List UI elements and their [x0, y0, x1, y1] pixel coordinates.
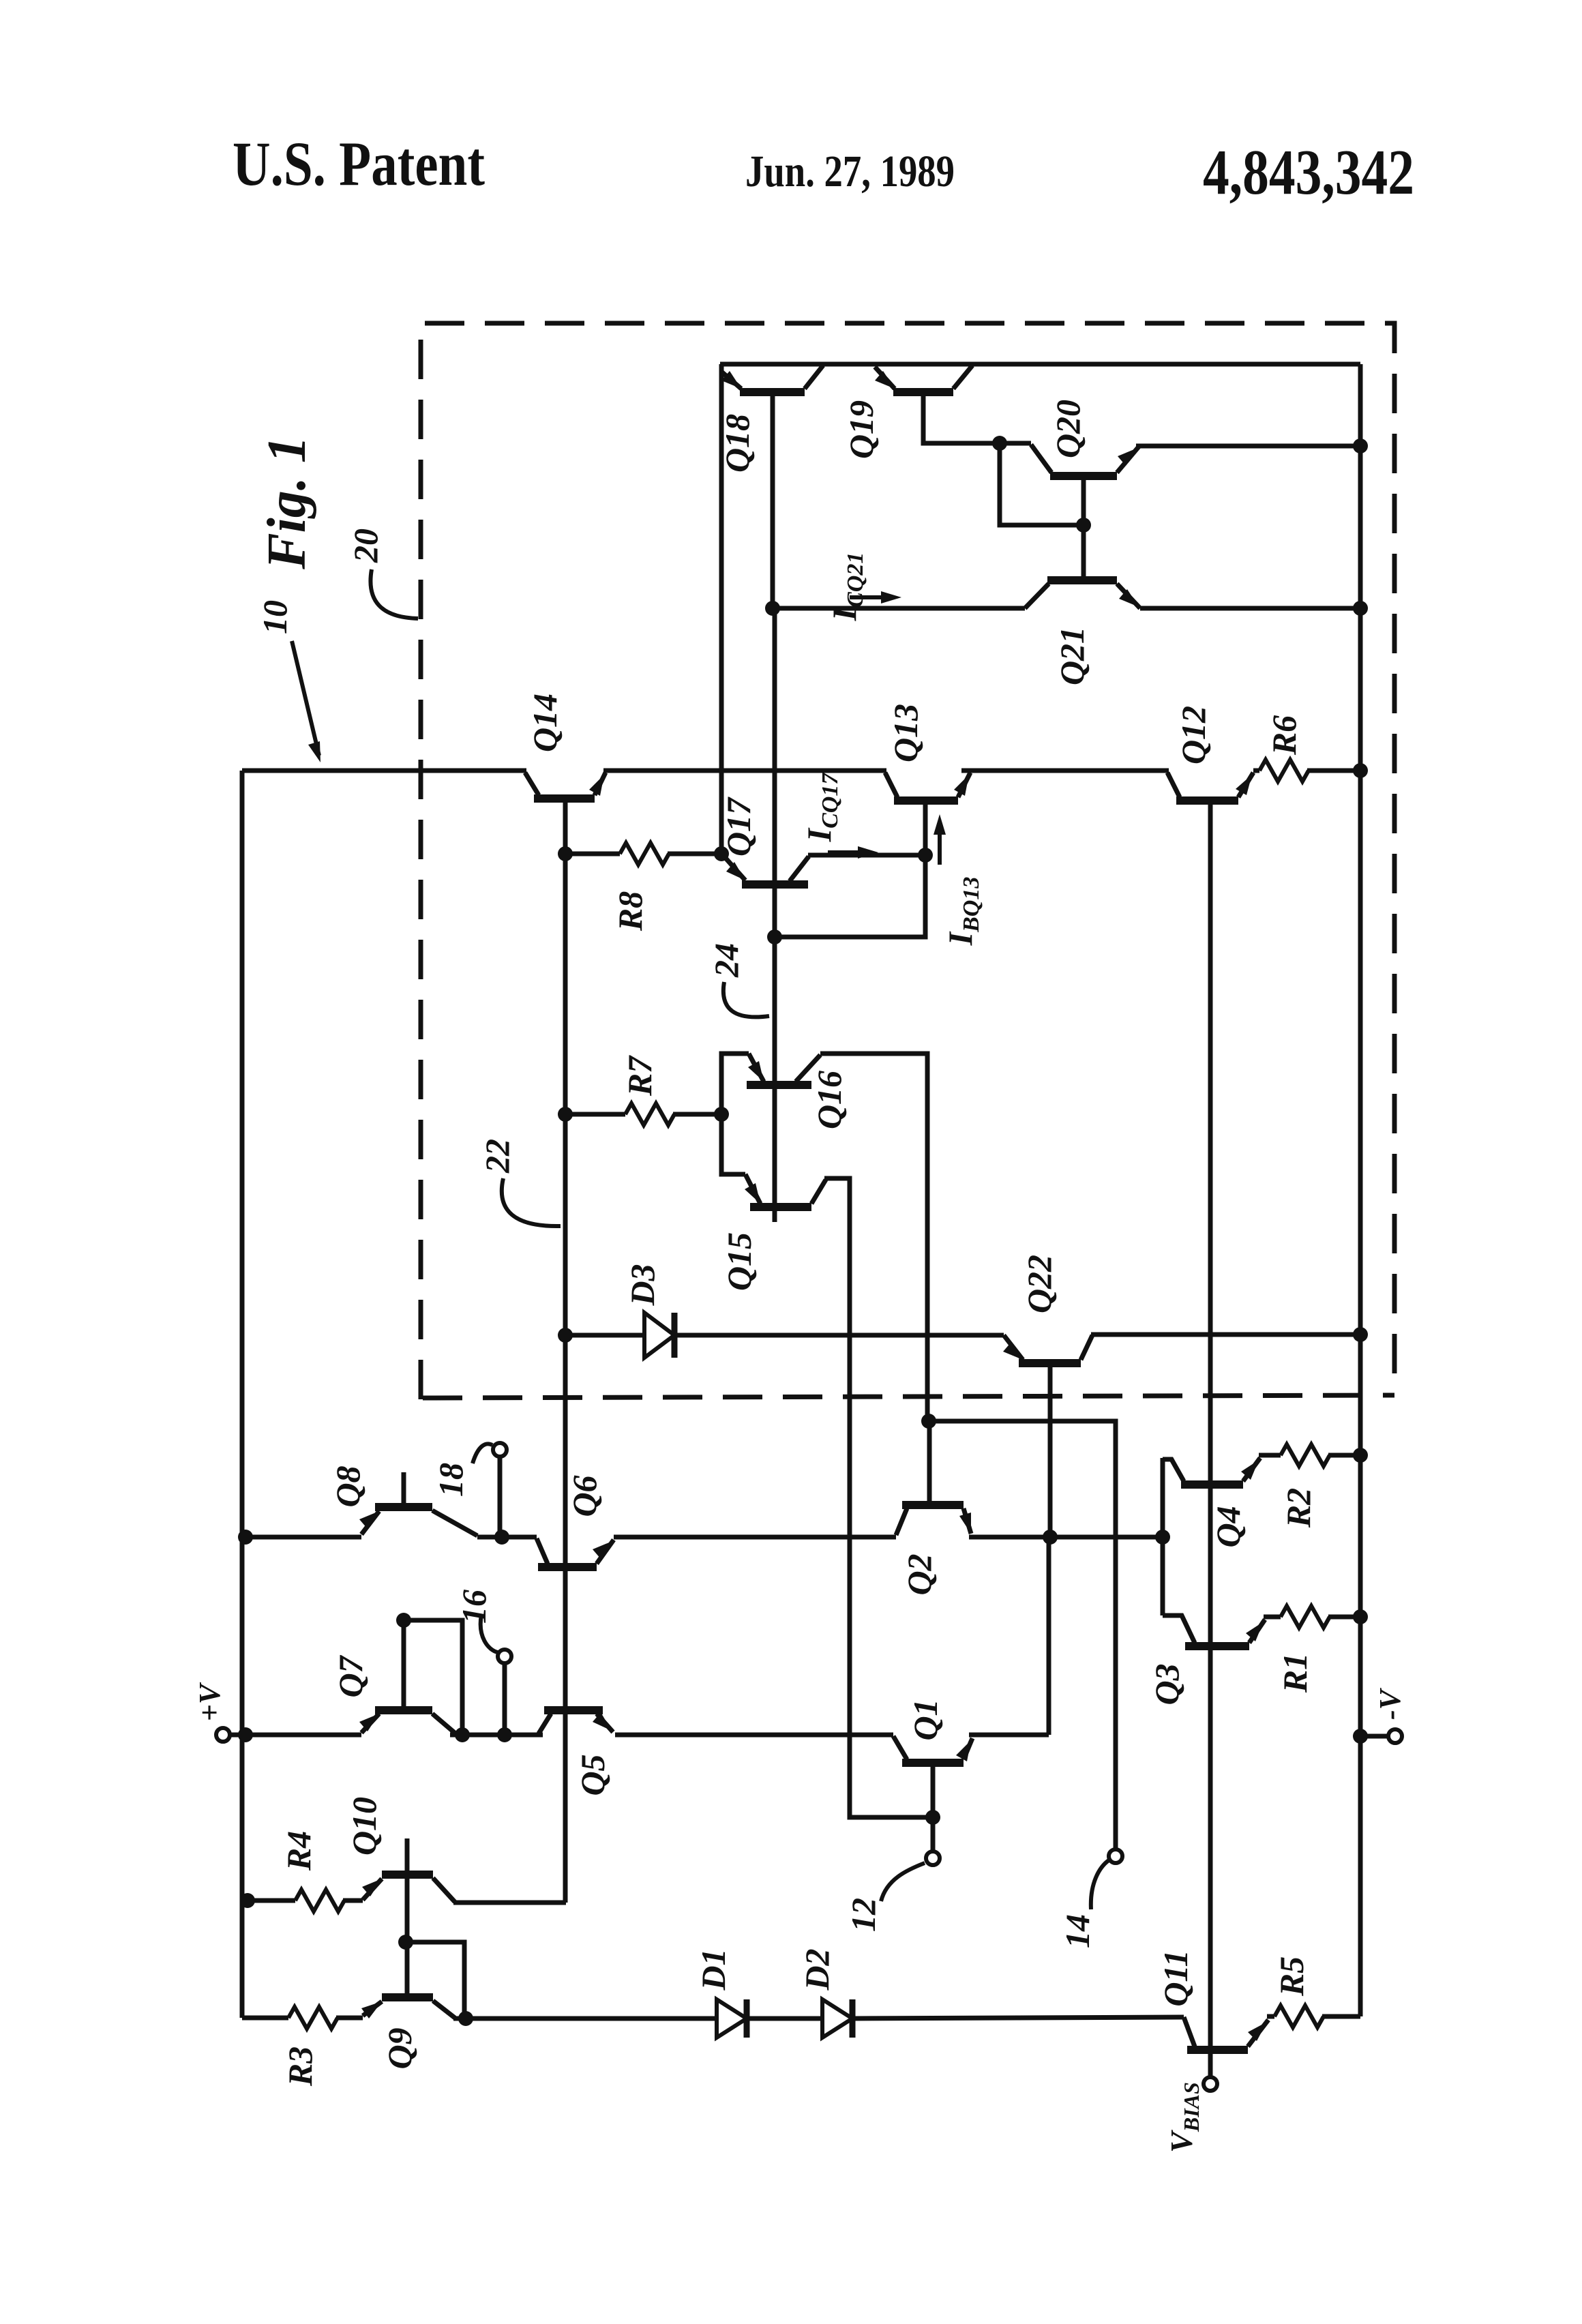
wire: Q16 collector path — [721, 1054, 749, 1114]
wire: I_BQ13 loop down to node 24 — [775, 855, 925, 937]
resistor R8 — [620, 843, 669, 865]
label D2 — [798, 1948, 836, 1991]
header text: date Jun. 27, 1989 — [745, 147, 955, 196]
svg-text:R5: R5 — [1272, 1956, 1311, 1997]
wire: D2 to Q11 — [852, 2017, 1184, 2018]
node (Q20 base link) — [1076, 518, 1091, 533]
diode D1 — [717, 1999, 747, 2038]
resistor R4 — [295, 1890, 344, 1911]
svg-text:Q16: Q16 — [810, 1071, 848, 1129]
label Q22 — [1020, 1255, 1058, 1313]
node (Q10 base jog) — [398, 1935, 413, 1950]
transistor Q16 — [747, 1054, 820, 1085]
node (input 18 tap) — [494, 1530, 509, 1545]
wire: Q5 emitter line to Q1 — [615, 1733, 893, 1738]
svg-text:Q14: Q14 — [526, 694, 564, 752]
label Q6 — [565, 1475, 603, 1517]
wire: Q21 emitter line to right rail — [1140, 606, 1360, 611]
transistor Q4 — [1163, 1458, 1260, 1485]
transistor Q3 — [1163, 1615, 1265, 1646]
wire: -V tap — [1360, 1734, 1388, 1739]
terminal: +V — [216, 1728, 230, 1742]
node (R8 / Q18 collector / Q17 collector) — [714, 846, 729, 861]
wire: +V rail top (y1130) segment 1 — [242, 769, 526, 773]
label Q8 — [329, 1465, 367, 1507]
svg-text:Q10: Q10 — [345, 1797, 383, 1856]
label Q9 — [380, 2027, 419, 2069]
wire: node 24 vertical (Q17/Q16 base line) — [773, 608, 777, 1222]
wire: +V line segment 2 — [450, 1733, 543, 1738]
terminal: input 16 — [498, 1650, 511, 1663]
terminal: input 18 — [493, 1443, 507, 1457]
wire: Q7 base stub up / link to Q8 base — [402, 1620, 406, 1710]
wire: bottom line to D1 — [453, 2016, 717, 2021]
wire: Q13 base vertical — [923, 801, 928, 855]
node (Q2 line / Q4 collector) — [1155, 1530, 1170, 1545]
wire: R7 line — [565, 1112, 721, 1117]
label R1 — [1276, 1653, 1314, 1693]
wire: R4 line — [245, 1898, 363, 1903]
label 12 with squiggle — [844, 1863, 925, 1932]
svg-text:+V: +V — [193, 1682, 226, 1721]
terminal: input 14 — [1109, 1849, 1122, 1863]
header text: U.S. Patent — [233, 129, 485, 198]
wire: Q17 emitter to Q13 base node — [808, 853, 925, 858]
wire: Q15 emitter to input 12 node — [824, 1178, 927, 1817]
transistor Q21 — [1025, 580, 1140, 608]
transistor Q6 — [537, 1538, 614, 1567]
node (Q1 base / Q15 emitter) — [925, 1810, 940, 1825]
svg-text:14: 14 — [1058, 1914, 1096, 1948]
wire: Q22 emitter to right rail — [1091, 1332, 1360, 1337]
label Q1 — [906, 1699, 944, 1740]
wire: +V rail top segment 3 — [961, 769, 1169, 773]
label R6 — [1265, 715, 1303, 756]
wire: Q22 base down — [1048, 1363, 1053, 1537]
terminal: VBIAS — [1204, 2077, 1217, 2091]
label Fig. 1 — [257, 436, 317, 570]
label Q13 — [886, 704, 925, 762]
svg-text:R3: R3 — [281, 2046, 319, 2087]
resistor R2 — [1281, 1444, 1330, 1466]
wire: Q12 base vertical down to VBIAS — [1208, 801, 1213, 2077]
label I_CQ21 with current arrow — [825, 552, 901, 622]
node (Q2 base / Q16 emitter / input 14) — [921, 1414, 936, 1429]
node (Q14 base line / R7) — [558, 1107, 573, 1122]
label Q20 — [1049, 400, 1087, 458]
node (Q14 base line / D3) — [558, 1328, 573, 1343]
wire: R3 line — [242, 2016, 363, 2021]
transistor Q19 — [875, 366, 972, 392]
wire: input 16 lead — [503, 1663, 507, 1735]
label Q7 — [331, 1654, 370, 1697]
node (R2 / right rail) — [1353, 1448, 1368, 1463]
svg-text:Q22: Q22 — [1020, 1255, 1058, 1313]
label R3 — [281, 2046, 319, 2087]
transistor Q18 — [721, 366, 823, 392]
wire: Q18 base down to Q21 line — [771, 392, 775, 608]
wire: Q6 collector line to Q2 — [614, 1535, 896, 1540]
label +V — [193, 1682, 226, 1721]
wire: top rail (Q18/Q19 collector rail) — [720, 362, 1360, 367]
wire: D3 cathode to Q22 — [674, 1333, 1004, 1338]
label VBIAS — [1164, 2082, 1204, 2153]
label I_BQ13 with current arrow — [934, 814, 984, 946]
transistor Q12 — [1167, 773, 1253, 801]
node (R1 / right rail) — [1353, 1609, 1368, 1624]
node (-V / right rail) — [1353, 1729, 1368, 1744]
wire: Q2 base vertical — [927, 1421, 932, 1505]
transistor Q15 — [745, 1174, 826, 1207]
diode D2 — [822, 1999, 852, 2038]
svg-text:Q6: Q6 — [565, 1475, 603, 1517]
svg-text:4,843,342: 4,843,342 — [1203, 137, 1414, 208]
transistor Q22 — [1003, 1335, 1092, 1363]
resistor R1 — [1281, 1606, 1330, 1628]
svg-text:-V: -V — [1373, 1687, 1407, 1720]
svg-text:Q7: Q7 — [331, 1654, 370, 1697]
node (Q22 emitter / rail) — [1353, 1327, 1368, 1342]
transistor Q14 — [525, 773, 606, 799]
svg-text:Q12: Q12 — [1174, 706, 1212, 764]
label Q14 — [526, 694, 564, 752]
label 14 with squiggle — [1058, 1860, 1109, 1948]
svg-text:Q11: Q11 — [1156, 1950, 1195, 2006]
wire: Q8 line (y2254) segment 1 — [242, 1535, 361, 1540]
label Q11 — [1156, 1950, 1195, 2006]
wire: R8 line — [565, 852, 721, 856]
wire: Q14 base vertical — [563, 799, 568, 1903]
svg-text:R1: R1 — [1276, 1653, 1314, 1693]
header text: patent number 4,843,342 — [1203, 137, 1414, 208]
label R2 — [1279, 1488, 1317, 1528]
label 16 with squiggle — [455, 1590, 498, 1652]
svg-text:R8: R8 — [611, 891, 649, 932]
dashed box 20 (amplifier block) — [421, 323, 1394, 1399]
transistor Q11 — [1184, 2017, 1268, 2050]
label Q2 — [900, 1553, 938, 1595]
svg-text:Jun. 27, 1989: Jun. 27, 1989 — [745, 147, 955, 196]
wire: input 14 jog — [929, 1421, 1116, 1849]
node (Q13 base / Q17 emitter) — [918, 848, 933, 863]
wire: R1 line — [1264, 1615, 1360, 1620]
wire: jog from node A down to Q20/Q21 base link — [1000, 443, 1084, 525]
wire: input 18 lead — [498, 1457, 503, 1537]
label -V — [1373, 1687, 1407, 1720]
svg-text:20: 20 — [346, 528, 385, 563]
label Q10 — [345, 1797, 383, 1856]
svg-text:Q17: Q17 — [719, 796, 758, 856]
label 24 with pointer arc — [707, 943, 769, 1017]
node (Q18 base / Q21 collector line) — [765, 601, 780, 616]
resistor R7 — [625, 1103, 674, 1125]
node (Q20 emitter / rail) — [1353, 438, 1368, 453]
transistor Q20 — [1031, 445, 1139, 476]
label R5 — [1272, 1956, 1311, 1997]
label Q15 — [720, 1232, 758, 1291]
transistor Q17 — [724, 856, 809, 884]
node (Q7/Q8 base jog) — [396, 1613, 411, 1628]
svg-text:18: 18 — [432, 1463, 470, 1497]
svg-text:10: 10 — [256, 600, 294, 634]
wire: Q21 collector line left segment — [773, 606, 1025, 611]
svg-text:Q1: Q1 — [906, 1699, 944, 1740]
svg-text:D1: D1 — [694, 1948, 732, 1991]
label 10 with arrow — [256, 600, 320, 762]
label R8 — [611, 891, 649, 932]
svg-text:Q3: Q3 — [1148, 1663, 1186, 1705]
wire: +V rail top segment 2 — [603, 769, 886, 773]
transistor Q13 — [885, 773, 970, 801]
wire: Q20 emitter line to right rail — [1136, 444, 1360, 449]
label 22 with pointer arc — [478, 1139, 561, 1226]
transistor Q5 — [539, 1710, 613, 1733]
wire: +V line (y2544) segment 1 — [230, 1733, 361, 1738]
svg-text:Q2: Q2 — [900, 1553, 938, 1595]
node (R7 / Q16-Q15 collector) — [714, 1107, 729, 1122]
label Q3 — [1148, 1663, 1186, 1705]
node (Q22 base / Q2 line) — [1043, 1530, 1058, 1545]
label 18 with squiggle — [432, 1444, 492, 1497]
svg-text:Q21: Q21 — [1053, 627, 1091, 685]
wire: base jog Q9/Q10 diode connection — [406, 1942, 464, 2018]
wire: Q10 emitter to Q5/Q6 base line — [453, 1901, 566, 1905]
label R4 — [280, 1831, 318, 1871]
resistor R6 — [1259, 760, 1309, 781]
transistor Q9 — [361, 1997, 455, 2018]
resistor R5 — [1274, 2006, 1324, 2027]
wire: right rail (-V rail) — [1358, 364, 1363, 2016]
svg-text:Q4: Q4 — [1209, 1506, 1247, 1547]
node (left rail / R4) — [240, 1893, 255, 1908]
node (Q9 emitter / bottom line) — [458, 2011, 473, 2026]
svg-text:D2: D2 — [798, 1948, 836, 1991]
svg-text:Q9: Q9 — [380, 2027, 419, 2069]
wire: Q18 collector drop to R8 node — [719, 364, 724, 854]
label Q4 — [1209, 1506, 1247, 1547]
resistor R3 — [288, 2007, 338, 2029]
label R7 — [621, 1055, 659, 1097]
terminal: -V — [1388, 1729, 1402, 1743]
node A (Q19 base / Q20 junction) — [992, 436, 1007, 451]
wire: Q10 base vertical to Q9 — [405, 1875, 410, 1997]
wire: Q19 base jog to Q20 — [923, 392, 1031, 443]
node (base jog / +V line) — [455, 1727, 470, 1742]
wire: D3 anode line — [565, 1333, 644, 1338]
transistor Q8 — [359, 1472, 477, 1536]
label Q16 — [810, 1071, 848, 1129]
svg-text:Q20: Q20 — [1049, 400, 1087, 458]
label Q17 — [719, 796, 758, 856]
svg-text:Q5: Q5 — [573, 1754, 612, 1796]
svg-text:22: 22 — [478, 1139, 516, 1174]
wire: D1 to D2 — [747, 2016, 822, 2021]
label D1 — [694, 1948, 732, 1991]
label Q21 — [1053, 627, 1091, 685]
svg-text:Q13: Q13 — [886, 704, 925, 762]
wire: Q1 base down to input 12 — [931, 1763, 936, 1851]
wire: left rail (+V rail) — [240, 771, 245, 2018]
svg-text:24: 24 — [707, 943, 745, 978]
node (left rail / Q8 line) — [238, 1530, 253, 1545]
transistor Q7 — [359, 1710, 456, 1733]
svg-text:Q15: Q15 — [720, 1232, 758, 1291]
svg-text:Q8: Q8 — [329, 1465, 367, 1507]
label Q18 — [718, 414, 756, 473]
transistor Q2 — [896, 1505, 971, 1535]
label Q12 — [1174, 706, 1212, 764]
wire: R5 line — [1267, 2014, 1360, 2019]
wire: Q20 base to Q21 base link — [1081, 476, 1086, 580]
node (left rail / +V line) — [238, 1727, 253, 1742]
wire: Q15 collector path — [721, 1114, 745, 1174]
svg-text:U.S. Patent: U.S. Patent — [233, 129, 485, 198]
wire: Q4/Q3 collector vertical — [1161, 1458, 1165, 1615]
wire: Q22 base vertical lower — [1047, 1537, 1051, 1735]
node (Q14 base / R8) — [558, 846, 573, 861]
label I_CQ17 with current arrow — [800, 772, 878, 859]
wire: R2 line — [1259, 1453, 1360, 1458]
label 20 with pointer arc — [346, 528, 418, 619]
svg-text:R7: R7 — [621, 1055, 659, 1097]
node (loop / node 24) — [767, 929, 782, 944]
svg-text:D3: D3 — [623, 1264, 661, 1306]
svg-text:12: 12 — [844, 1898, 882, 1932]
svg-text:Fig. 1: Fig. 1 — [257, 436, 317, 570]
transistor Q10 — [362, 1838, 455, 1902]
wire: Q16 emitter to Q2 base line — [820, 1054, 927, 1421]
wire: base jog Q7/Q8 diode connection — [404, 1620, 462, 1735]
diode D3 — [644, 1313, 674, 1358]
transistor Q1 — [893, 1736, 972, 1763]
label D3 — [623, 1264, 661, 1306]
label Q19 — [842, 400, 880, 459]
svg-text:R4: R4 — [280, 1831, 318, 1871]
terminal: input 12 — [926, 1851, 940, 1865]
node (R6 / right rail) — [1353, 763, 1368, 778]
wire: Q8 line segment 2 — [477, 1535, 537, 1540]
svg-text:R2: R2 — [1279, 1488, 1317, 1528]
wire: Q2 collector line to Q4 — [969, 1535, 1163, 1540]
svg-text:R6: R6 — [1265, 715, 1303, 756]
svg-text:Q19: Q19 — [842, 400, 880, 459]
svg-text:Q18: Q18 — [718, 414, 756, 473]
node (Q21 emitter / rail) — [1353, 601, 1368, 616]
svg-text:16: 16 — [455, 1590, 493, 1624]
wire: Q1 collector line to Q22 base — [969, 1733, 1049, 1738]
wire: +V rail top segment 4 with R6 — [1253, 769, 1360, 773]
node (input 16 tap) — [497, 1727, 512, 1742]
label Q5 — [573, 1754, 612, 1796]
